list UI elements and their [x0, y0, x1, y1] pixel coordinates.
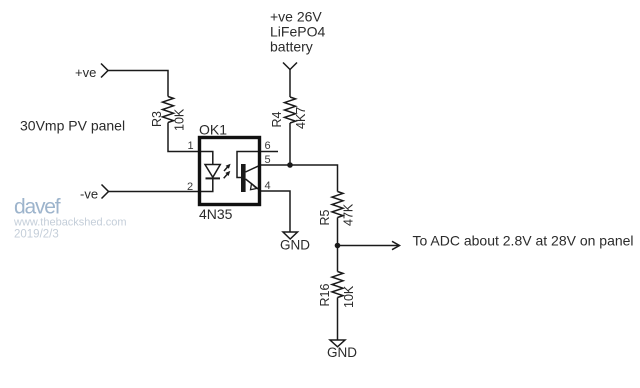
svg-text:OK1: OK1: [199, 122, 227, 138]
svg-text:6: 6: [265, 140, 271, 152]
svg-text:R5: R5: [318, 209, 332, 225]
svg-text:2: 2: [187, 181, 193, 193]
svg-text:4N35: 4N35: [199, 206, 233, 222]
svg-text:1: 1: [188, 140, 194, 152]
svg-text:R3: R3: [150, 111, 164, 127]
svg-text:5: 5: [265, 154, 271, 166]
svg-text:+ve: +ve: [75, 65, 96, 80]
svg-text:GND: GND: [327, 345, 357, 360]
svg-text:To ADC about 2.8V at 28V on pa: To ADC about 2.8V at 28V on panel: [413, 233, 634, 249]
svg-text:R16: R16: [318, 284, 332, 307]
svg-text:2019/2/3: 2019/2/3: [14, 229, 59, 241]
svg-text:10K: 10K: [342, 285, 356, 308]
svg-text:R4: R4: [270, 111, 284, 127]
svg-text:www.thebackshed.com: www.thebackshed.com: [13, 217, 127, 229]
svg-text:+ve 26V: +ve 26V: [270, 9, 322, 25]
svg-text:davef: davef: [14, 196, 61, 219]
svg-text:battery: battery: [270, 39, 313, 55]
svg-text:4: 4: [265, 180, 271, 192]
svg-text:-ve: -ve: [80, 187, 98, 202]
svg-text:10K: 10K: [173, 108, 187, 131]
svg-text:GND: GND: [280, 238, 310, 253]
svg-text:30Vmp PV panel: 30Vmp PV panel: [20, 118, 125, 134]
svg-text:47K: 47K: [342, 203, 356, 226]
svg-text:LiFePO4: LiFePO4: [270, 24, 325, 40]
svg-text:4K7: 4K7: [294, 107, 308, 129]
